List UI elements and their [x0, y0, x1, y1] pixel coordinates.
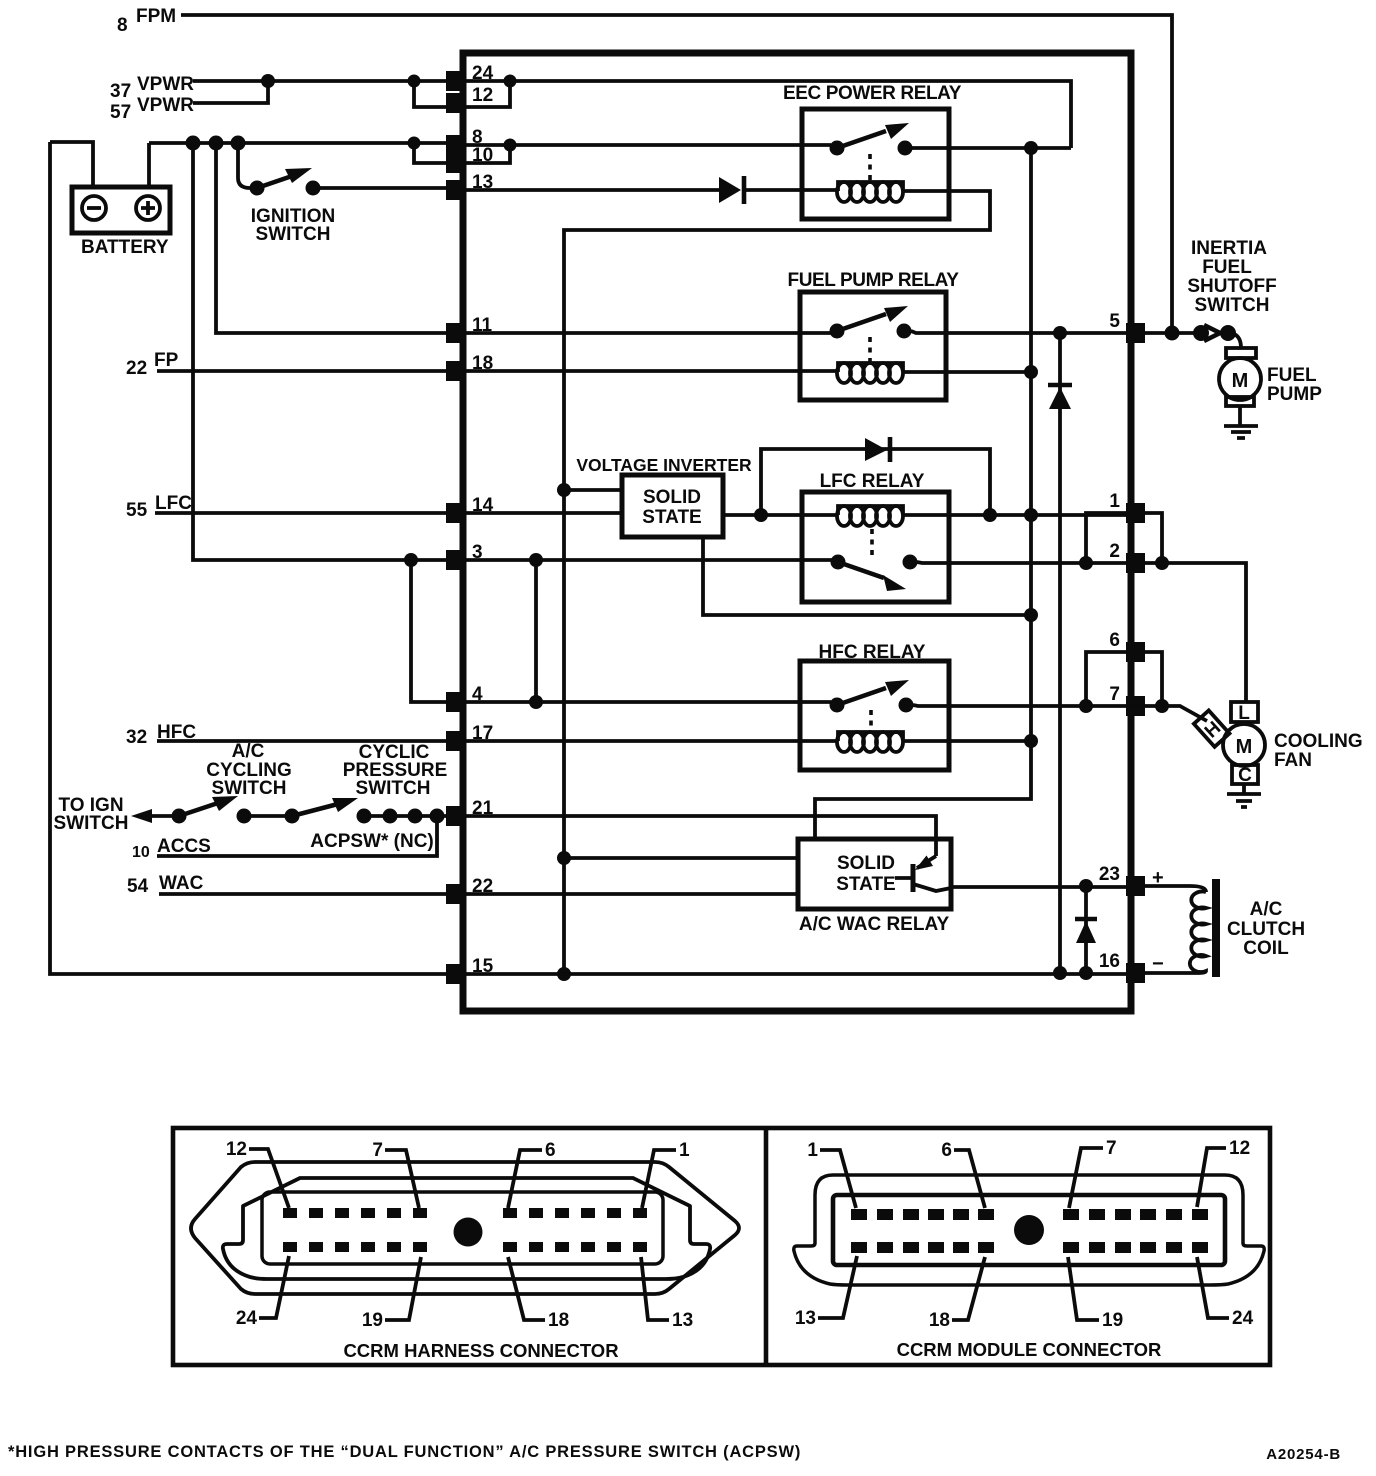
harness pin 6 label — [508, 1140, 556, 1208]
pin 4 (CCRM left) — [446, 684, 483, 712]
harness pin 13 label — [641, 1257, 693, 1331]
harness pin 12 label — [226, 1139, 289, 1208]
pin 8 (CCRM left) — [446, 127, 483, 155]
svg-text:FP: FP — [154, 350, 179, 371]
pin 21 (CCRM left) — [446, 798, 494, 826]
harness pin 1 label — [642, 1140, 690, 1208]
pin 23 (CCRM right) — [1099, 864, 1145, 896]
pin 22 (CCRM left) — [446, 876, 493, 904]
harness pin 7 label — [372, 1140, 419, 1208]
diode D4 (clutch flyback) — [1075, 886, 1097, 973]
pin 10 (CCRM left) — [446, 145, 493, 173]
module pin 7 label — [1069, 1138, 1117, 1208]
pin 16 (CCRM right) — [1099, 951, 1145, 983]
wire battery to pin 11 — [216, 143, 446, 333]
svg-text:BATTERY: BATTERY — [81, 237, 169, 258]
ACPSW contacts (NC) — [310, 809, 446, 853]
wire inverter output to LFC coil and pin 1 — [723, 513, 1126, 517]
svg-text:SOLID: SOLID — [643, 487, 701, 508]
pin 12 (CCRM left) — [446, 85, 493, 113]
junction jumper 1-2 outside — [1155, 556, 1169, 570]
harness pin 19 label — [362, 1257, 421, 1331]
module pin 12 label — [1197, 1138, 1250, 1207]
wire battery negative to left rail — [50, 142, 93, 187]
junction WAC relay feed — [557, 851, 571, 865]
wire diode D1 to EEC coil — [746, 188, 838, 192]
module pin 13 label — [795, 1256, 857, 1329]
wire VPWR 57 joins 37 — [193, 81, 268, 103]
svg-text:SWITCH: SWITCH — [54, 813, 129, 834]
pin 13 (CCRM left) — [446, 172, 493, 200]
wire jumper pins 3-4 outside — [411, 560, 446, 702]
svg-text:SWITCH: SWITCH — [356, 778, 431, 799]
wire FPM from pin 8 to fuel pump line — [181, 15, 1172, 333]
wire rail feed to WAC box — [564, 856, 798, 860]
pin 24 (CCRM left) — [446, 63, 494, 91]
svg-text:−: − — [1152, 953, 1164, 975]
junction EEC output — [1024, 141, 1038, 155]
diode D1 — [719, 176, 744, 204]
junction jumper 6-7 inside — [1079, 699, 1093, 713]
svg-text:2: 2 — [1109, 541, 1120, 562]
svg-text:37: 37 — [110, 81, 131, 102]
svg-text:FAN: FAN — [1274, 750, 1312, 771]
svg-text:VPWR: VPWR — [137, 95, 194, 116]
wire pin 22 to WAC box — [465, 892, 798, 896]
svg-text:54: 54 — [127, 876, 149, 897]
svg-text:STATE: STATE — [836, 874, 895, 895]
connector detail frame — [173, 1128, 1270, 1365]
junction diode D3 bottom — [1053, 966, 1067, 980]
node VPWR pin 37 label — [110, 74, 194, 102]
svg-text:FPM: FPM — [136, 6, 176, 27]
svg-text:13: 13 — [672, 1310, 693, 1331]
node WAC pin 54 label — [127, 873, 204, 897]
svg-text:+: + — [1152, 867, 1164, 889]
CCRM module enclosure — [463, 53, 1131, 1011]
module pin 6 label — [941, 1140, 985, 1208]
module pin 24 label — [1197, 1257, 1254, 1329]
wire jumper pins 8-10 inside — [465, 145, 510, 163]
wire inertia switch to fuel pump — [1234, 334, 1241, 348]
svg-text:57: 57 — [110, 102, 131, 123]
junction jumper 8-10 inside — [504, 139, 517, 152]
junction inverter bottom to rail — [1024, 608, 1038, 622]
junction battery bus D — [408, 137, 421, 150]
wire pin 5 to inertia switch — [1145, 331, 1201, 335]
wire jumper pins 3-4 inside — [534, 560, 538, 702]
svg-text:VOLTAGE INVERTER: VOLTAGE INVERTER — [576, 455, 752, 475]
junction diode D3 top — [1053, 326, 1067, 340]
junction jumper 1-2 inside — [1079, 556, 1093, 570]
wire HFC coil to VPWR rail — [903, 739, 1031, 743]
harness connector index post — [454, 1218, 483, 1247]
svg-text:EEC POWER RELAY: EEC POWER RELAY — [783, 83, 962, 104]
pin 5 (CCRM right) — [1109, 311, 1145, 343]
wire rail to inverter input — [564, 488, 622, 492]
module pin 1 label — [807, 1140, 856, 1208]
wire WAC to pin 22 — [159, 892, 446, 896]
pin 11 (CCRM left) — [446, 315, 493, 343]
svg-text:CLUTCH: CLUTCH — [1227, 919, 1305, 940]
pin 14 (CCRM left) — [446, 495, 494, 523]
junction VPWR — [261, 74, 275, 88]
svg-text:1: 1 — [807, 1140, 818, 1161]
node VPWR pin 57 label — [110, 95, 194, 123]
A/C cycling switch S3 — [172, 741, 292, 824]
wire jumper pins 1-2 outside — [1145, 513, 1162, 563]
wire jumper pins 1-2 inside — [1086, 513, 1126, 563]
wire LFC label to pin 14 — [155, 511, 446, 515]
svg-text:ACPSW* (NC): ACPSW* (NC) — [310, 831, 434, 852]
module connector pin row bottom — [851, 1242, 1208, 1253]
svg-text:5: 5 — [1109, 311, 1120, 332]
wire jumper pins 6-7 outside — [1145, 652, 1162, 706]
module pin 19 label — [1068, 1257, 1123, 1331]
wire pin 17 to HFC coil — [465, 739, 838, 743]
svg-text:23: 23 — [1099, 864, 1120, 885]
junction clutch diode top — [1079, 879, 1093, 893]
wire pin 3 to LFC relay contact — [465, 558, 832, 562]
junction battery bus A — [186, 136, 201, 151]
harness pin 24 label — [236, 1256, 289, 1329]
svg-text:24: 24 — [1232, 1308, 1254, 1329]
svg-text:LFC: LFC — [155, 493, 192, 514]
wire pin 15 to pin 16 ground line — [465, 972, 1126, 976]
svg-text:55: 55 — [126, 500, 148, 521]
harness connector pin row top — [283, 1208, 647, 1218]
svg-text:WAC: WAC — [159, 873, 204, 894]
svg-text:19: 19 — [362, 1310, 383, 1331]
node LFC pin 55 label — [126, 493, 192, 521]
pin 3 (CCRM left) — [446, 542, 483, 570]
svg-text:M: M — [1236, 736, 1253, 758]
wire ignition switch to pin 13 — [313, 186, 446, 190]
wire VPWR 37 to pin 24 — [193, 79, 446, 83]
wire pin 4 to HFC contact — [465, 700, 831, 704]
wire battery to pin 3 line — [193, 143, 446, 560]
wire pin 18 to FP relay coil — [465, 369, 838, 373]
svg-text:6: 6 — [545, 1140, 556, 1161]
junction FP coil VPWR — [1024, 365, 1038, 379]
svg-text:6: 6 — [941, 1140, 952, 1161]
pin 18 (CCRM left) — [446, 353, 493, 381]
svg-text:CCRM HARNESS CONNECTOR: CCRM HARNESS CONNECTOR — [343, 1340, 618, 1361]
wire FP relay contact to pin 5 — [911, 331, 1126, 333]
pin 7 (CCRM right) — [1109, 684, 1145, 716]
wire jumper pins 8-10 outside — [414, 143, 446, 163]
wire battery positive riser — [147, 143, 151, 187]
svg-text:M: M — [1232, 370, 1249, 392]
EEC power relay K1 — [783, 83, 962, 219]
harness pin 18 label — [508, 1257, 569, 1331]
node FPM pin 8 label — [117, 6, 176, 36]
pin 2 (CCRM right) — [1109, 541, 1145, 573]
svg-text:22: 22 — [126, 358, 147, 379]
svg-text:10: 10 — [132, 844, 150, 861]
fuel pump motor M1 — [1219, 348, 1322, 406]
svg-text:SOLID: SOLID — [837, 853, 895, 874]
svg-text:FUEL: FUEL — [1202, 257, 1252, 278]
svg-text:12: 12 — [1229, 1138, 1250, 1159]
svg-text:12: 12 — [226, 1139, 247, 1160]
wire inverter bottom output — [703, 537, 1031, 615]
junction jumper 24-12 outside — [408, 75, 421, 88]
wire pin 8 to EEC relay contact — [465, 143, 831, 147]
svg-text:INERTIA: INERTIA — [1191, 238, 1267, 259]
CCRM module connector outline — [794, 1175, 1264, 1285]
junction pin3-pin4 jumper outside — [404, 553, 418, 567]
svg-text:16: 16 — [1099, 951, 1120, 972]
junction jumper 24-12 inside — [504, 75, 517, 88]
ignition switch S1 — [250, 168, 336, 245]
node ACCS pin 10 label — [132, 836, 211, 861]
wire jumper pins 24-12 inside — [465, 81, 510, 107]
wire LFC contact to pin 2 and cooling fan L — [917, 562, 1246, 702]
svg-text:24: 24 — [236, 1308, 258, 1329]
wire jumper pins 6-7 inside — [1086, 652, 1126, 706]
svg-text:8: 8 — [117, 15, 128, 36]
svg-text:COOLING: COOLING — [1274, 731, 1363, 752]
junction jumper 6-7 outside — [1155, 699, 1169, 713]
junction pin3-4 jumper inside — [529, 553, 543, 567]
wire pin 23 to clutch coil plus — [1145, 867, 1190, 889]
transistor Q1 — [895, 856, 951, 893]
svg-text:7: 7 — [1109, 684, 1120, 705]
wire from ignition to A/C cycling switch — [131, 809, 179, 823]
svg-text:FUEL PUMP RELAY: FUEL PUMP RELAY — [787, 270, 959, 291]
harness connector pin row bottom — [283, 1242, 647, 1252]
diode D2 — [865, 437, 890, 462]
wire pin 21 to WAC transistor — [465, 816, 936, 856]
pin 15 (CCRM left) — [446, 956, 494, 984]
svg-text:1: 1 — [1109, 491, 1120, 512]
svg-text:STATE: STATE — [642, 507, 701, 528]
wire jumper pins 24-12 outside — [414, 81, 446, 107]
junction battery bus C — [231, 136, 246, 151]
A/C WAC relay U2 (solid state) — [798, 839, 951, 935]
svg-text:19: 19 — [1102, 1310, 1123, 1331]
wire HFC contact to pin 7 and fan H — [913, 705, 1207, 721]
cooling fan motor M2 — [1194, 702, 1363, 786]
ground (cooling fan) — [1227, 784, 1261, 807]
svg-text:COIL: COIL — [1243, 938, 1289, 959]
voltage inverter U1 — [576, 455, 752, 537]
svg-text:6: 6 — [1109, 630, 1120, 651]
svg-text:A/C: A/C — [232, 741, 265, 762]
svg-text:C: C — [1238, 765, 1252, 786]
junction ground return — [557, 967, 571, 981]
wire VPWR distribution rail — [815, 148, 1031, 837]
junction battery bus B — [209, 136, 224, 151]
wire ACCS to pin 21 line — [157, 816, 437, 856]
battery B1 — [72, 187, 170, 258]
svg-text:A/C WAC RELAY: A/C WAC RELAY — [799, 914, 950, 935]
A/C clutch coil L1 — [1190, 879, 1305, 977]
wire FP coil to VPWR rail — [903, 370, 1031, 374]
svg-text:A20254-B: A20254-B — [1266, 1446, 1341, 1463]
wire WAC output to pin 23 — [951, 885, 1126, 889]
svg-text:7: 7 — [372, 1140, 383, 1161]
HFC relay K4 — [800, 642, 949, 770]
pin 1 (CCRM right) — [1109, 491, 1145, 523]
wire pin 14 to inverter — [465, 511, 622, 515]
svg-text:PUMP: PUMP — [1267, 384, 1322, 405]
svg-text:VPWR: VPWR — [137, 74, 194, 95]
cyclic pressure switch S4 — [285, 742, 448, 824]
junction pin4 jumper inside — [529, 695, 543, 709]
diode D3 (fuel pump line to ground line) — [1048, 333, 1072, 973]
svg-text:32: 32 — [126, 727, 147, 748]
wire battery bus to pin 8 — [149, 141, 446, 145]
pin 17 (CCRM left) — [446, 723, 493, 751]
fuel pump relay K2 — [787, 270, 959, 400]
svg-text:SWITCH: SWITCH — [212, 778, 287, 799]
wire HFC label to pin 17 — [157, 739, 446, 743]
node TO IGN SWITCH label — [54, 795, 129, 834]
CCRM harness connector outline — [191, 1162, 739, 1294]
svg-text:SWITCH: SWITCH — [256, 224, 331, 245]
svg-text:A/C: A/C — [1250, 899, 1283, 920]
svg-text:*HIGH PRESSURE CONTACTS OF THE: *HIGH PRESSURE CONTACTS OF THE “DUAL FUN… — [8, 1443, 801, 1461]
module pin 18 label — [929, 1257, 985, 1331]
svg-text:ACCS: ACCS — [157, 836, 211, 857]
node HFC pin 32 label — [126, 722, 196, 748]
wire battery to ignition switch — [238, 143, 256, 188]
wire FP label to pin 18 — [157, 369, 446, 373]
module connector index post — [1014, 1215, 1044, 1245]
wire pin 24 to EEC relay contact — [465, 81, 1071, 148]
svg-text:18: 18 — [548, 1310, 569, 1331]
pin 6 (CCRM right) — [1109, 630, 1145, 662]
node FP pin 22 label — [126, 350, 179, 379]
svg-text:FUEL: FUEL — [1267, 365, 1317, 386]
svg-text:SHUTOFF: SHUTOFF — [1187, 276, 1276, 297]
svg-text:SWITCH: SWITCH — [1195, 295, 1270, 316]
junction inverter output — [754, 508, 768, 522]
wire diode D2 branch — [761, 449, 990, 515]
svg-text:12: 12 — [472, 85, 493, 106]
junction voltage inverter feed — [557, 483, 571, 497]
wire EEC coil return to solid-state devices — [564, 191, 990, 974]
wire cycling to cyclic pressure switch — [244, 814, 292, 818]
LFC relay K3 — [802, 471, 949, 602]
wire pin 11 to FP relay contact — [465, 331, 831, 335]
svg-text:L: L — [1238, 703, 1250, 724]
junction LFC coil VPWR rail — [1024, 508, 1038, 522]
junction FPM line — [1165, 326, 1180, 341]
svg-text:LFC RELAY: LFC RELAY — [820, 471, 925, 492]
wire pin 16 to clutch coil minus — [1145, 953, 1197, 975]
junction clutch diode bottom — [1079, 966, 1093, 980]
module connector pin row top — [851, 1209, 1208, 1220]
inertia fuel shutoff switch S2 — [1187, 238, 1276, 341]
junction D2 cathode to coil line — [983, 508, 997, 522]
svg-text:1: 1 — [679, 1140, 690, 1161]
svg-text:18: 18 — [929, 1310, 950, 1331]
wire pin 13 to diode D1 — [465, 188, 719, 192]
svg-text:13: 13 — [795, 1308, 816, 1329]
svg-text:7: 7 — [1106, 1138, 1117, 1159]
wire EEC relay contact output — [912, 146, 1071, 150]
junction HFC coil VPWR — [1024, 734, 1038, 748]
svg-text:CCRM MODULE CONNECTOR: CCRM MODULE CONNECTOR — [897, 1339, 1162, 1360]
ground (fuel pump) — [1224, 406, 1258, 438]
wire left ground rail to pin 15 — [50, 142, 446, 974]
